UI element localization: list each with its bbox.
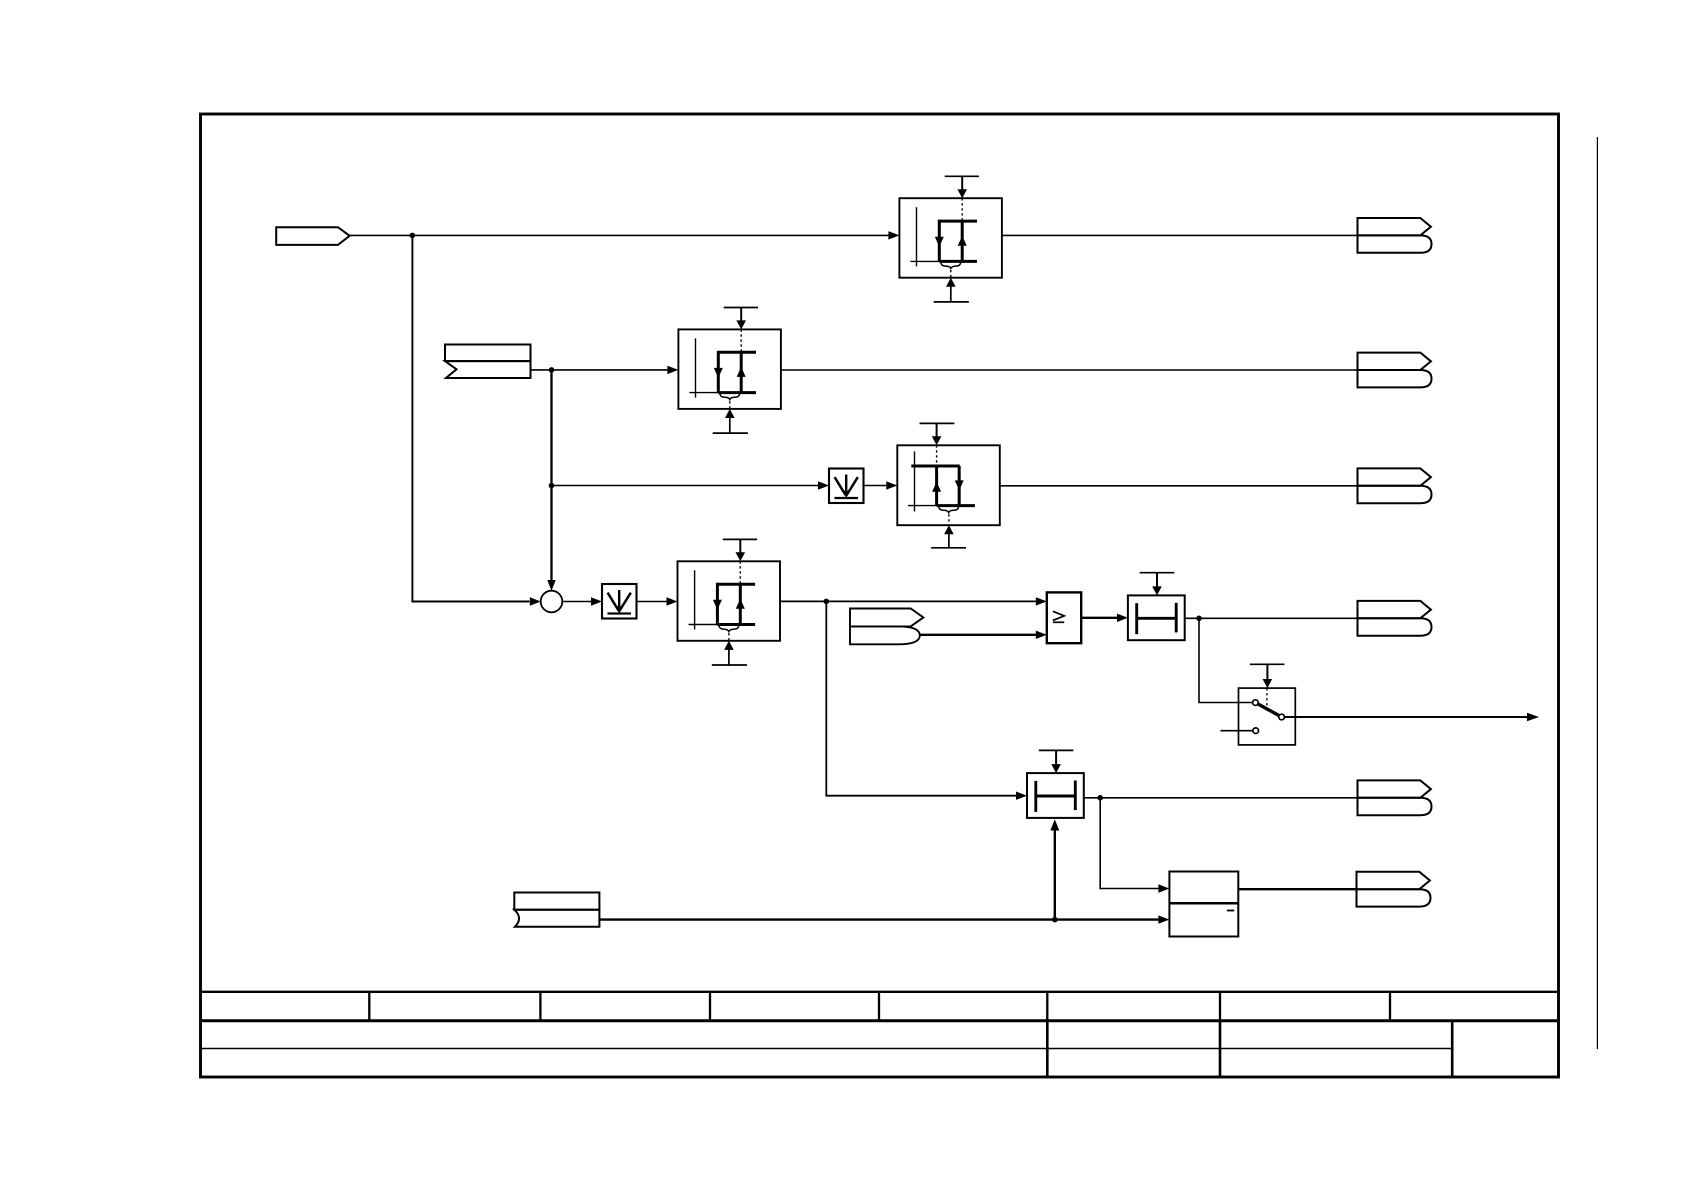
setting block H1 — [1128, 573, 1185, 641]
wire: S1 to limiter B3 — [864, 485, 887, 487]
output connector Y6 — [1357, 872, 1431, 907]
input connector X2 (flag with chevron notch) — [445, 345, 531, 379]
wire: X4 to subtractor lower input — [599, 918, 1158, 920]
comparator block (>=) — [1047, 592, 1081, 643]
wire: branch to scaling square S1 — [552, 485, 819, 487]
output connector Y3 — [1358, 468, 1432, 503]
wire: junction up into H2 (arrow) — [1054, 830, 1056, 920]
output connector Y5 — [1358, 780, 1432, 815]
input connector X1 (pentagon flag) — [276, 227, 350, 245]
sheet fold line (right margin) — [1596, 137, 1598, 1049]
scaling square S1 — [829, 469, 864, 504]
limiter block B2 — [678, 308, 781, 434]
input connector X4 (flag with arc notch) — [514, 893, 599, 910]
node: junction on X2 wire — [549, 367, 555, 373]
title block column dividers (lower rows) — [1047, 1021, 1452, 1077]
switch select T-bar — [1250, 663, 1285, 665]
node: junction after B4 — [824, 599, 830, 605]
wire: vertical from B4 junction down to H2 — [826, 601, 1016, 795]
wire: S2 to limiter B4 — [637, 601, 667, 603]
wire: stub into switch lower contact — [1221, 730, 1253, 732]
wire: junction down to subtractor box — [1100, 798, 1158, 889]
node: junction after H1 — [1196, 616, 1202, 622]
wire: vertical from X1 junction down to adder — [412, 235, 529, 601]
adder circle — [541, 591, 563, 613]
wire: B3 to output connector Y3 — [1000, 485, 1357, 487]
title block: row line 1 — [202, 991, 1557, 993]
input connector X3 (pentagon + rounded) — [850, 609, 923, 627]
setting block H2 — [1027, 750, 1084, 818]
wire: H1 to output connector Y4 — [1185, 617, 1358, 619]
subtractor box (two rows, minus) — [1169, 872, 1238, 937]
limiter block B1 — [899, 176, 1002, 302]
wire: B4 output to comparator — [780, 600, 1036, 602]
wire: X3 to comparator lower input — [920, 634, 1036, 636]
wire: H2 to output connector Y5 — [1084, 797, 1357, 799]
wire: adder to scaling square S2 — [562, 601, 591, 603]
wire: junction down to switch input — [1199, 618, 1253, 702]
title block column dividers (top row) — [369, 992, 1390, 1021]
wire: comparator to H1 — [1081, 617, 1117, 619]
scaling square S2 — [602, 584, 637, 619]
node: junction for branch 3 — [549, 483, 555, 489]
wire: X2 to limiter B2 — [531, 369, 668, 371]
switch block — [1239, 688, 1296, 745]
output connector Y4 — [1358, 601, 1432, 636]
title block: row line 2 (thick) — [202, 1019, 1557, 1022]
wire: switch output arrow to frame edge — [1285, 716, 1528, 718]
title block: row line 3 — [202, 1048, 1452, 1050]
output connector Y1 — [1358, 218, 1432, 253]
limiter block B3 (mirrored) — [897, 423, 1000, 547]
limiter block B4 — [678, 539, 781, 665]
drawing frame border — [201, 114, 1559, 1077]
node: junction on X1 wire — [410, 233, 416, 239]
wire: subtractor to output connector Y6 — [1238, 888, 1356, 890]
wire: B2 to output connector Y2 — [781, 369, 1357, 371]
output connector Y2 — [1358, 353, 1432, 388]
node: junction on X4 wire — [1052, 917, 1058, 923]
wire: X1 to limiter B1 — [350, 234, 890, 236]
wire: B1 to output connector Y1 — [1002, 234, 1358, 236]
wire: vertical from X2 junction down to adder (arrow into circle) — [550, 370, 552, 581]
node: junction after H2 — [1097, 795, 1103, 801]
